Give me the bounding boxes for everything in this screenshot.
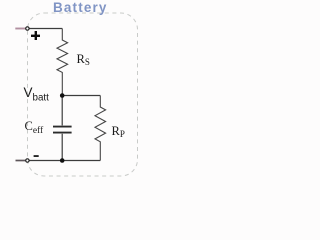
title Battery xyxy=(53,0,108,15)
capacitor C1 Ceff bottom lead xyxy=(61,134,63,161)
wire bottom xyxy=(30,160,101,162)
wire negative stub xyxy=(16,160,26,162)
label Vbatt xyxy=(24,85,49,104)
junction node bottom xyxy=(60,158,65,163)
wire positive stub xyxy=(15,28,25,30)
junction node at Vbatt xyxy=(60,93,65,98)
wire middle xyxy=(62,95,100,97)
port node positive xyxy=(26,27,29,30)
label Rp xyxy=(112,124,125,139)
port node negative xyxy=(26,159,29,162)
label Rs xyxy=(77,52,90,67)
subsystem dashed boundary xyxy=(28,13,138,176)
wire top xyxy=(30,28,63,30)
capacitor C1 Ceff bottom plate xyxy=(53,132,72,134)
resistor R1 Rs xyxy=(57,29,68,96)
capacitor C1 Ceff top plate xyxy=(53,126,72,128)
capacitor C1 Ceff top lead xyxy=(61,96,63,126)
plus sign xyxy=(31,31,40,40)
minus sign xyxy=(34,155,39,157)
resistor R2 Rp xyxy=(95,96,106,161)
label Ceff xyxy=(25,119,44,136)
